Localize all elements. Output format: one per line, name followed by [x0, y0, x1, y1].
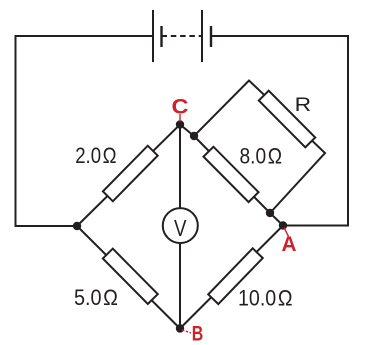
node C junction dot — [176, 120, 184, 128]
wire: lower-right junction to node A — [270, 213, 283, 226]
svg-text:8.0 Ω: 8.0 Ω — [240, 144, 283, 169]
wire: node C to junction of bridge right branches — [180, 125, 194, 137]
svg-text:B: B — [192, 323, 204, 345]
red tick from C label to node C — [179, 114, 181, 122]
node A junction dot — [279, 221, 287, 229]
svg-text:10.0 Ω: 10.0 Ω — [238, 286, 293, 311]
battery cell 2 long plate — [201, 10, 203, 62]
wire: node A to node B (10.0 ohm branch) — [180, 226, 283, 329]
battery cell 2 short plate — [210, 26, 212, 47]
node L junction dot — [73, 222, 81, 230]
battery (two cells with dashed link) — [153, 10, 211, 62]
svg-text:2.0 Ω: 2.0 Ω — [75, 143, 116, 168]
wire: left node L to node B (5.0 ohm branch) — [77, 226, 180, 329]
resistor 2.0 ohm body — [103, 146, 158, 201]
svg-text:R: R — [295, 94, 312, 116]
svg-text:A: A — [282, 233, 297, 256]
svg-text:5.0 Ω: 5.0 Ω — [74, 285, 118, 310]
voltmeter V circle — [163, 208, 198, 243]
junction dot above A — [266, 209, 274, 217]
battery cell 1 long plate — [152, 10, 154, 62]
resistor 8.0 ohm body — [203, 147, 258, 202]
resistor R body — [259, 91, 315, 148]
wire: voltmeter down to node B — [179, 243, 181, 329]
battery cell 1 short plate — [160, 26, 162, 47]
junction dot right of C — [190, 132, 198, 140]
red tick from node B to B label — [182, 330, 191, 333]
svg-text:V: V — [174, 215, 187, 241]
dashed wire between cells — [162, 35, 203, 37]
wire: top-left rail from battery to left node L — [16, 36, 154, 226]
resistor 5.0 ohm body — [103, 249, 158, 304]
wire: R parallel loop — [194, 81, 325, 214]
resistor 10.0 ohm body — [208, 248, 263, 304]
wire: node C down to voltmeter — [179, 125, 181, 209]
svg-text:C: C — [172, 96, 189, 119]
wire: top-right rail from battery to node A — [211, 36, 348, 226]
red tick from node A to A label — [284, 228, 289, 237]
wire: left node L to node C (2.0 ohm branch) — [77, 125, 180, 227]
wire: junction to lower-right junction (8.0 ohm branch) — [194, 136, 270, 213]
node B junction dot — [176, 324, 184, 332]
